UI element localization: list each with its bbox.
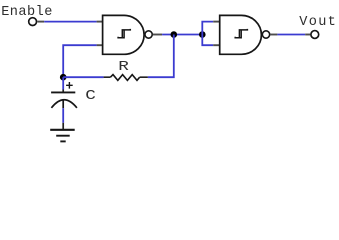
label C	[85, 88, 96, 104]
ground symbol	[50, 130, 74, 142]
svg-text:Vout: Vout	[299, 15, 337, 30]
capacitor C curved bottom plate	[51, 100, 77, 108]
wire net U2 output to Vout terminal (blue)	[277, 34, 305, 36]
wire capacitor C to ground (blue)	[62, 108, 64, 123]
capacitor C polarity + marker	[66, 82, 73, 89]
wire node B branch down to resistor R (blue)	[148, 35, 174, 78]
resistor R zigzag body	[110, 75, 139, 81]
capacitor C bottom lead	[62, 100, 64, 108]
resistor R leads	[104, 76, 148, 78]
svg-text:C: C	[85, 88, 96, 104]
hysteresis symbol U2	[235, 29, 247, 39]
Schmitt-trigger NAND gate U1 body	[103, 15, 144, 54]
hysteresis symbol U1	[118, 29, 130, 39]
wire U2 input A pin stub	[213, 21, 220, 23]
terminal Vout	[311, 31, 319, 39]
Schmitt-trigger NAND gate U2 body	[220, 15, 262, 54]
junction dot node B at U2 inputs	[199, 31, 206, 38]
wire U2 output pin stub	[270, 34, 277, 36]
junction dot node A (R, C, U1 input B)	[60, 74, 67, 81]
wire net node B: U1 output to junction dots (blue)	[162, 34, 202, 36]
wire node B bracket to U2 inputs (blue)	[202, 22, 213, 46]
output bubble U2	[262, 31, 269, 38]
wire net Enable to U1 input A (blue)	[44, 21, 96, 23]
wire U1 input A pin stub	[97, 21, 103, 23]
ground lead stub	[62, 123, 64, 130]
wire U2 input B pin stub	[213, 44, 220, 46]
wire U1 input B pin stub	[97, 44, 103, 46]
capacitor C top lead stub	[62, 90, 64, 93]
svg-text:R: R	[118, 59, 129, 75]
capacitor C top plate	[51, 91, 75, 93]
wire net node A to U1 input B (blue, left then down to node A)	[63, 45, 96, 77]
label Vout	[299, 15, 337, 30]
label Enable	[1, 5, 53, 20]
wire Enable terminal lead (gray stub)	[37, 21, 44, 23]
wire Vout terminal lead (gray stub)	[305, 34, 310, 36]
label R	[118, 59, 129, 75]
output bubble U1	[145, 31, 152, 38]
junction dot node B at resistor branch	[171, 31, 178, 38]
terminal Enable	[29, 18, 37, 26]
wire U1 output pin stub	[153, 34, 162, 36]
svg-text:Enable: Enable	[1, 5, 53, 20]
wire node A down to capacitor C (blue)	[62, 77, 64, 89]
wire node A to resistor R (blue)	[63, 76, 103, 78]
